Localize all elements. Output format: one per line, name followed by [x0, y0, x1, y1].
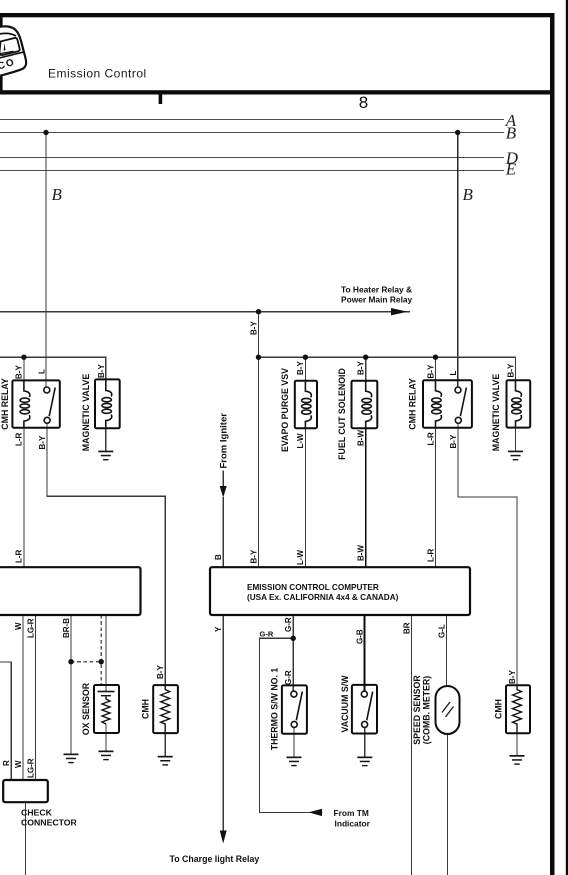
svg-text:B: B: [214, 554, 223, 560]
svg-text:B: B: [506, 124, 517, 143]
svg-text:B-Y: B-Y: [426, 364, 435, 378]
svg-text:(USA Ex. CALIFORNIA 4x4 & CANA: (USA Ex. CALIFORNIA 4x4 & CANADA): [247, 593, 399, 602]
svg-text:From TM: From TM: [334, 808, 369, 818]
svg-text:W: W: [14, 760, 23, 768]
svg-text:CONNECTOR: CONNECTOR: [21, 818, 78, 828]
svg-text:L: L: [449, 371, 458, 376]
svg-text:Emission Control: Emission Control: [48, 67, 147, 81]
svg-text:B-Y: B-Y: [357, 361, 366, 375]
svg-text:G-B: G-B: [355, 629, 364, 644]
svg-text:L: L: [38, 369, 47, 374]
svg-text:B-Y: B-Y: [38, 435, 47, 449]
svg-text:G-L: G-L: [437, 624, 446, 638]
svg-text:L-R: L-R: [426, 432, 435, 446]
svg-text:B-Y: B-Y: [508, 670, 517, 684]
svg-text:(COMB. METER): (COMB. METER): [421, 676, 431, 744]
svg-text:Indicator: Indicator: [335, 819, 371, 829]
svg-text:B-Y: B-Y: [449, 434, 458, 448]
svg-text:B-Y: B-Y: [156, 665, 165, 679]
svg-text:SPEED SENSOR: SPEED SENSOR: [412, 675, 422, 745]
svg-text:VACUUM S/W: VACUUM S/W: [340, 675, 350, 733]
svg-text:From Igniter: From Igniter: [219, 413, 230, 469]
svg-text:L-W: L-W: [296, 433, 305, 449]
svg-text:B-Y: B-Y: [97, 364, 106, 378]
svg-text:G-R: G-R: [284, 670, 293, 685]
svg-text:L-R: L-R: [426, 548, 435, 562]
svg-text:B-Y: B-Y: [249, 549, 258, 563]
svg-text:BR: BR: [403, 622, 412, 634]
svg-text:B-W: B-W: [357, 430, 366, 446]
svg-text:EMISSION CONTROL COMPUTER: EMISSION CONTROL COMPUTER: [247, 583, 379, 592]
svg-text:B-Y: B-Y: [249, 321, 258, 335]
svg-text:B-W: B-W: [357, 545, 366, 561]
svg-text:B: B: [52, 185, 63, 204]
svg-text:Power Main Relay: Power Main Relay: [341, 295, 413, 305]
svg-text:To Heater Relay &: To Heater Relay &: [341, 285, 412, 295]
svg-text:E: E: [505, 160, 517, 179]
svg-text:To Charge light Relay: To Charge light Relay: [170, 854, 260, 864]
svg-text:MAGNETIC VALVE: MAGNETIC VALVE: [491, 374, 501, 452]
svg-text:G-R: G-R: [260, 630, 274, 639]
svg-text:L-R: L-R: [15, 432, 24, 446]
svg-text:8: 8: [359, 93, 368, 112]
svg-text:CMH: CMH: [141, 699, 151, 719]
svg-text:CMH: CMH: [493, 699, 503, 719]
svg-text:LG-R: LG-R: [26, 618, 35, 638]
svg-text:R: R: [2, 760, 11, 766]
svg-text:CHECK: CHECK: [21, 808, 53, 818]
svg-text:BR-B: BR-B: [62, 618, 71, 638]
svg-text:L-R: L-R: [15, 549, 24, 563]
svg-text:CMH RELAY: CMH RELAY: [408, 378, 418, 430]
svg-text:G-R: G-R: [284, 617, 293, 632]
svg-text:L-W: L-W: [296, 549, 305, 565]
svg-text:Y: Y: [214, 626, 223, 632]
svg-text:W: W: [14, 622, 23, 630]
svg-text:THERMO S/W NO. 1: THERMO S/W NO. 1: [269, 668, 279, 751]
svg-text:LG-R: LG-R: [26, 758, 35, 778]
svg-text:B: B: [463, 185, 474, 204]
svg-text:CMH RELAY: CMH RELAY: [0, 378, 10, 430]
svg-text:FUEL CUT SOLENOID: FUEL CUT SOLENOID: [337, 368, 347, 460]
svg-text:B-Y: B-Y: [15, 365, 24, 379]
svg-text:EVAPO PURGE VSV: EVAPO PURGE VSV: [280, 368, 290, 452]
svg-text:MAGNETIC VALVE: MAGNETIC VALVE: [81, 374, 91, 452]
svg-text:OX SENSOR: OX SENSOR: [81, 682, 91, 735]
svg-text:B-Y: B-Y: [296, 361, 305, 375]
svg-text:B-Y: B-Y: [506, 363, 515, 377]
